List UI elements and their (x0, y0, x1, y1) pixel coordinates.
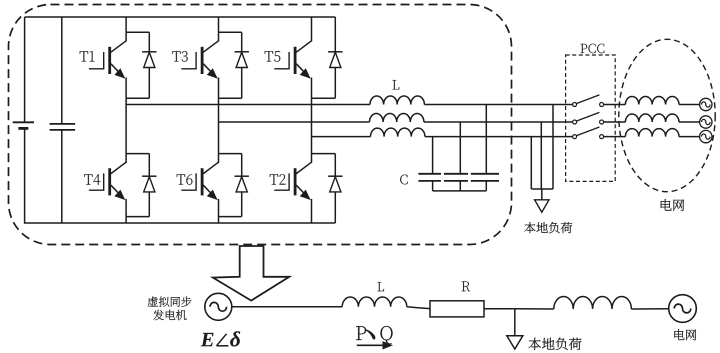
diode D1 (142, 52, 156, 68)
label PCC label (581, 44, 605, 54)
wire leg phase C bottom cell (312, 154, 336, 223)
label resistor value R (462, 281, 470, 291)
wire DC bus + (top) (25, 16, 336, 18)
label transistor label T3 (172, 51, 188, 62)
inductor grid A impedance (625, 96, 679, 104)
AC source grid B (700, 116, 712, 128)
label transistor label T6 (177, 174, 193, 185)
label P Q power flow (356, 326, 393, 344)
wire L to R (407, 307, 418, 308)
label transistor label T4 (84, 174, 100, 185)
diode D4 (142, 176, 156, 192)
node junction local load (515, 308, 554, 310)
label transistor label T5 (265, 51, 281, 61)
AC source grid eq (669, 295, 697, 323)
wire grid A (679, 104, 700, 106)
label local load text (top) 本地负荷 (524, 222, 572, 233)
AC source grid A (700, 98, 712, 110)
wire phase B to PCC (424, 121, 573, 123)
wire leg phase A top cell (126, 17, 149, 98)
label VSG text line2 发电机 (153, 310, 186, 320)
label E (201, 333, 214, 346)
resistor R (430, 301, 484, 317)
inductor L (equivalent line) (342, 297, 407, 307)
transistor T3 (181, 41, 218, 79)
dashed enclosure (inverter block boundary) (9, 5, 512, 245)
label inductor value L (393, 80, 400, 89)
wire DC bus - (bottom) (24, 222, 336, 224)
PCC dashed box (566, 55, 616, 181)
label Q (380, 326, 392, 344)
transistor T6 (181, 162, 218, 200)
big hollow arrow (inverter to equivalent model) (213, 246, 289, 301)
wire leg phase B top cell (219, 17, 242, 98)
diode D5 (328, 52, 342, 68)
wire VSG to L (232, 306, 342, 308)
label grid text (top) 电网 (661, 199, 684, 211)
label transistor label T1 (80, 51, 95, 61)
label E angle delta (201, 331, 241, 346)
battery E (DC source) (13, 17, 34, 223)
diode D3 (235, 52, 249, 68)
switch SA (PCC breaker pole) (573, 95, 604, 107)
wire phase A leg mid vertical (125, 98, 127, 153)
capacitor Cdc (DC link) (50, 17, 76, 223)
inductor L phase A (370, 96, 424, 105)
transistor T4 (89, 162, 126, 200)
label local load text (bottom) 本地负荷 (528, 338, 581, 351)
wire phase C to PCC (425, 136, 573, 138)
label P (356, 326, 366, 340)
inductor grid equivalent (554, 296, 632, 309)
wire phase C from leg3 (312, 136, 371, 138)
grid dashed ellipse (619, 39, 715, 191)
label VSG text line1 虚拟同步 (148, 297, 192, 307)
arrow P Q direction (357, 341, 393, 349)
wire R to junction (484, 308, 515, 310)
wire leg phase A bottom cell (126, 154, 149, 223)
wire phase A from leg1 (126, 104, 370, 106)
inductor grid B impedance (625, 114, 679, 122)
label grid text (bottom) 电网 (674, 329, 696, 340)
AC source VSG (205, 293, 232, 320)
diode D2 (328, 176, 342, 192)
label delta (230, 331, 240, 346)
label transistor label T2 (270, 174, 286, 184)
transistor T5 (274, 41, 311, 79)
wire leg phase C top cell (312, 17, 336, 98)
wire SB to grid (604, 121, 626, 123)
AC source grid C (700, 130, 712, 142)
inductor L phase B (370, 114, 424, 123)
local load (top) (531, 105, 553, 213)
wire SA to grid (604, 104, 626, 106)
diode D6 (235, 176, 249, 192)
inductor L phase C (371, 128, 425, 137)
inductor grid C impedance (625, 129, 679, 137)
wire SC to grid (604, 136, 626, 138)
transistor T1 (89, 41, 126, 79)
label inductor value L bottom (378, 282, 385, 291)
wire to grid source (631, 308, 668, 310)
wire phase C leg mid vertical (311, 98, 313, 153)
label dunhao (365, 329, 375, 340)
wire phase B leg mid vertical (218, 98, 220, 153)
wire leg phase B bottom cell (219, 154, 242, 223)
transistor T2 (274, 162, 311, 200)
wire grid B (679, 121, 700, 123)
wire phase B from leg2 (219, 121, 370, 123)
switch SC (PCC breaker pole) (573, 127, 604, 139)
local load (bottom) (507, 309, 523, 349)
switch SB (PCC breaker pole) (573, 112, 604, 124)
wire phase A to PCC (424, 104, 572, 106)
wire grid C (679, 136, 700, 138)
capacitor C filter bank (418, 105, 499, 191)
label capacitor value C (400, 175, 407, 185)
